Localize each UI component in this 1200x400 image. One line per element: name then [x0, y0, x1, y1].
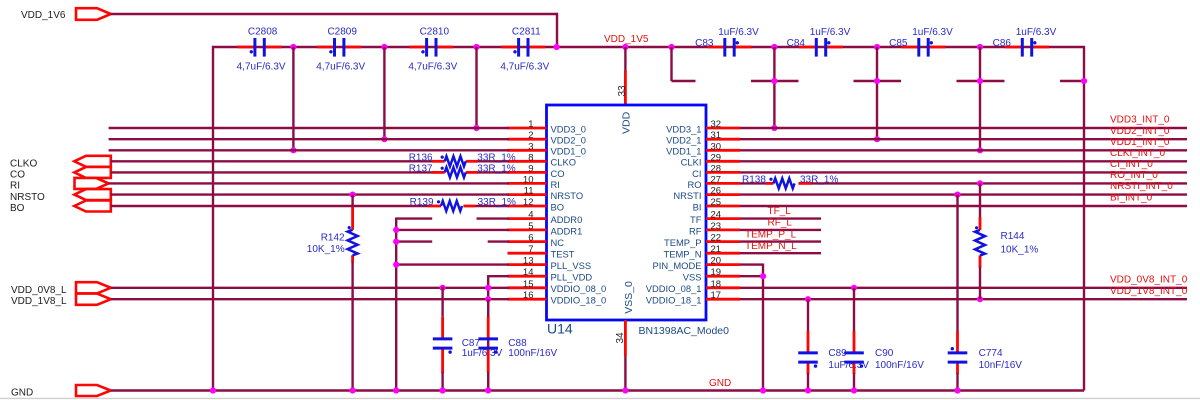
pin 19 VSS: [683, 267, 740, 282]
svg-text:C85: C85: [889, 38, 908, 49]
junction cap row / VDD2_0 leg: [381, 44, 387, 50]
pin 34 stub: [624, 320, 627, 356]
svg-text:PIN_MODE: PIN_MODE: [653, 260, 702, 271]
wire to VDD1_0: [292, 47, 294, 150]
wire VDD2_0 rail: [109, 138, 509, 140]
svg-text:VDDIO_18_1: VDDIO_18_1: [646, 295, 702, 306]
svg-text:CI_INT_0: CI_INT_0: [1110, 159, 1153, 170]
wire RF stub: [740, 229, 821, 231]
svg-text:VDD_0V8_L: VDD_0V8_L: [11, 285, 67, 296]
junction VDD_1V6 entry: [554, 44, 560, 50]
svg-text:VDD_1V5: VDD_1V5: [604, 34, 649, 45]
resistor R144: [975, 226, 985, 255]
wire to VDD3_0: [475, 47, 477, 128]
svg-text:13: 13: [523, 256, 534, 267]
junction T 877: [874, 78, 880, 84]
svg-text:VDD3_0: VDD3_0: [551, 123, 586, 134]
svg-text:31: 31: [711, 130, 722, 141]
pin 18 VDDIO_08_1: [646, 279, 740, 294]
port GND: [76, 385, 111, 396]
pin 27 RO: [687, 174, 740, 189]
wire PIN_MODE to VSS: [740, 263, 763, 265]
junction GND bus: [954, 387, 960, 393]
svg-text:4,7uF/6.3V: 4,7uF/6.3V: [408, 61, 457, 72]
port NRSTO: [74, 189, 111, 200]
pin 30 VDD1_1: [666, 141, 740, 156]
capacitor C90: [853, 288, 855, 333]
svg-text:PLL_VDD: PLL_VDD: [551, 272, 593, 283]
svg-text:R139: R139: [410, 197, 434, 208]
pin 15 VDDIO_08_0: [508, 279, 607, 294]
capacitor C774: [956, 195, 958, 333]
svg-text:21: 21: [711, 244, 722, 255]
port VDD_1V8_L: [76, 294, 111, 305]
pin 7 TEST: [508, 244, 575, 259]
svg-text:26: 26: [711, 186, 722, 197]
junction RO / R144: [977, 180, 983, 186]
wire to VDD2_0: [383, 47, 385, 139]
capacitor C89: [807, 299, 809, 332]
wire RO net: [740, 182, 767, 184]
svg-text:VDDIO_08_0: VDDIO_08_0: [551, 283, 607, 294]
port CLKO: [74, 156, 111, 167]
capacitor C2808: [238, 38, 282, 57]
svg-text:C2808: C2808: [248, 27, 278, 38]
pin 22 TEMP_P: [664, 233, 740, 248]
junction VSS: [760, 273, 766, 279]
svg-text:CLKI_INT_0: CLKI_INT_0: [1110, 148, 1165, 159]
wire R144 riser: [979, 183, 981, 218]
svg-text:33R_1%: 33R_1%: [477, 164, 515, 175]
svg-text:RI: RI: [551, 179, 560, 190]
pin 26 NRSTI: [673, 186, 740, 201]
svg-text:GND: GND: [709, 378, 731, 389]
svg-text:RF_L: RF_L: [768, 218, 793, 229]
pin 1 VDD3_0: [508, 119, 586, 134]
svg-text:3: 3: [528, 141, 533, 152]
pin 6 NC: [508, 233, 565, 248]
op-amp U14 body: [547, 105, 707, 320]
svg-text:100nF/16V: 100nF/16V: [875, 360, 924, 371]
pin 16 VDDIO_18_0: [508, 290, 607, 305]
wire VDD_1V6 top: [111, 13, 558, 15]
svg-text:VDD1_INT_0: VDD1_INT_0: [1110, 137, 1170, 148]
svg-text:100nF/16V: 100nF/16V: [508, 348, 557, 359]
capacitor C2811: [501, 38, 545, 57]
svg-text:25: 25: [711, 197, 722, 208]
svg-text:VDD: VDD: [621, 111, 633, 134]
junction GND bus: [851, 387, 857, 393]
wire VSS net: [740, 275, 763, 277]
capacitor C88: [487, 299, 489, 317]
svg-text:CLKO: CLKO: [551, 157, 577, 168]
junction cap row seg4: [977, 44, 983, 50]
svg-text:VSS: VSS: [683, 272, 702, 283]
port VDD_0V8_L: [76, 282, 111, 293]
junction GND bus: [805, 387, 811, 393]
wire stub L at 671: [670, 47, 672, 81]
wire CI_INT_0 net: [740, 171, 1187, 173]
wire TEMP_P stub: [740, 240, 821, 242]
pin 10 RI: [508, 174, 560, 189]
capacitor C2810: [409, 38, 453, 57]
pin 17 VDDIO_18_1: [646, 290, 740, 305]
junction NC: [393, 239, 399, 245]
svg-text:1uF/6.3V: 1uF/6.3V: [810, 27, 851, 38]
svg-text:TEMP_P_L: TEMP_P_L: [745, 229, 797, 240]
svg-text:10: 10: [523, 174, 534, 185]
junction GND bus: [350, 387, 356, 393]
junction cap row / VDD1_0 leg: [290, 44, 296, 50]
junction C87: [440, 285, 446, 291]
svg-text:C86: C86: [993, 38, 1012, 49]
resistor R136: [441, 156, 466, 167]
svg-text:ADDR1: ADDR1: [551, 225, 583, 236]
wire NRSTI net: [740, 193, 1187, 195]
svg-text:4,7uF/6.3V: 4,7uF/6.3V: [500, 61, 549, 72]
svg-text:R142: R142: [321, 232, 345, 243]
junction cap row / VDD3_0 leg: [473, 44, 479, 50]
junction C88 row15: [485, 285, 491, 291]
svg-text:NRSTI_INT_0: NRSTI_INT_0: [1110, 181, 1173, 192]
svg-text:ADDR0: ADDR0: [551, 214, 583, 225]
pin 3 VDD1_0: [508, 141, 586, 156]
capacitor C83: [708, 38, 752, 57]
svg-text:VSS_0: VSS_0: [623, 281, 635, 314]
svg-text:VDD_1V8_INT_0: VDD_1V8_INT_0: [1110, 286, 1188, 297]
svg-text:VDD2_INT_0: VDD2_INT_0: [1110, 126, 1170, 137]
svg-text:30: 30: [711, 141, 722, 152]
resistor R139: [437, 200, 462, 211]
svg-text:10K_1%: 10K_1%: [307, 244, 345, 255]
svg-text:1uF/6.3V: 1uF/6.3V: [1016, 27, 1057, 38]
pin 12 BO: [508, 197, 565, 212]
pin 29 CLKI: [681, 152, 740, 167]
junction VDD2_1: [874, 136, 880, 142]
svg-text:TF_L: TF_L: [768, 206, 792, 217]
pin 25 BI: [693, 197, 740, 212]
svg-text:BN1398AC_Mode0: BN1398AC_Mode0: [639, 325, 730, 337]
wire ADDR gnd riser: [395, 218, 397, 391]
svg-text:CO: CO: [10, 170, 25, 181]
svg-text:10nF/16V: 10nF/16V: [979, 360, 1023, 371]
svg-text:VDDIO_08_1: VDDIO_08_1: [646, 283, 702, 294]
resistor R138: [769, 178, 794, 189]
junction cap row seg3: [874, 44, 880, 50]
svg-text:4,7uF/6.3V: 4,7uF/6.3V: [237, 61, 286, 72]
wire pin 33 stub: [624, 47, 626, 72]
svg-text:TF: TF: [690, 214, 702, 225]
svg-text:TEST: TEST: [551, 249, 575, 260]
junction VDD3_1: [771, 125, 777, 131]
svg-text:1uF/6.3V: 1uF/6.3V: [718, 27, 759, 38]
port RI: [75, 178, 109, 189]
junction VDD3_0: [473, 125, 479, 131]
wire TF stub: [740, 217, 821, 219]
svg-text:GND: GND: [11, 387, 33, 398]
svg-text:17: 17: [711, 290, 722, 301]
svg-text:29: 29: [711, 152, 722, 163]
junction GND bus: [622, 387, 628, 393]
svg-text:C774: C774: [979, 348, 1003, 359]
svg-text:NC: NC: [551, 237, 565, 248]
wire GND right riser: [1083, 46, 1085, 391]
svg-text:C2810: C2810: [420, 27, 450, 38]
svg-text:VDD1_0: VDD1_0: [551, 146, 586, 157]
junction VDD1_1: [977, 147, 983, 153]
svg-text:U14: U14: [547, 320, 573, 336]
wire VDD2_INT_0 net: [740, 138, 1187, 140]
wire R142 riser: [351, 195, 353, 208]
junction T 980: [977, 78, 983, 84]
port BO: [74, 201, 111, 212]
junction GND bus: [485, 387, 491, 393]
svg-text:5: 5: [528, 221, 533, 232]
junction GND bus: [760, 387, 766, 393]
svg-text:12: 12: [523, 197, 534, 208]
svg-text:14: 14: [523, 267, 534, 278]
svg-text:R137: R137: [409, 164, 433, 175]
svg-text:CI: CI: [692, 168, 701, 179]
svg-text:2: 2: [528, 130, 533, 141]
junction VDD1_0: [290, 147, 296, 153]
pin 2 VDD2_0: [508, 130, 586, 145]
svg-text:R136: R136: [409, 153, 433, 164]
junction T 774: [771, 78, 777, 84]
svg-text:C90: C90: [875, 348, 894, 359]
pin 21 TEMP_N: [663, 244, 740, 259]
svg-text:4,7uF/6.3V: 4,7uF/6.3V: [316, 61, 365, 72]
svg-text:15: 15: [523, 279, 534, 290]
svg-text:32: 32: [711, 119, 722, 130]
svg-text:BI: BI: [693, 201, 702, 212]
pin 4 ADDR0: [508, 210, 583, 225]
wire VDD3_1 drop: [773, 47, 775, 128]
svg-text:NRSTI: NRSTI: [673, 190, 701, 201]
svg-text:R138: R138: [742, 174, 766, 185]
svg-text:10K_1%: 10K_1%: [1001, 244, 1039, 255]
capacitor C86: [1005, 38, 1049, 57]
wire VDD2_1 drop: [876, 47, 878, 139]
junction T 1084: [1081, 78, 1087, 84]
pin 23 RF: [689, 221, 740, 236]
svg-text:BI_INT_0: BI_INT_0: [1110, 193, 1153, 204]
svg-text:BO: BO: [10, 203, 25, 214]
svg-text:NRSTO: NRSTO: [10, 192, 45, 203]
svg-text:RF: RF: [689, 225, 702, 236]
capacitor C85: [902, 38, 946, 57]
svg-text:9: 9: [528, 163, 533, 174]
junction PLL_VSS: [393, 262, 399, 268]
svg-text:7: 7: [528, 244, 533, 255]
svg-text:22: 22: [711, 233, 722, 244]
svg-text:33R_1%: 33R_1%: [478, 197, 516, 208]
wire VDD1_INT_0 net: [740, 149, 1187, 151]
svg-text:RO: RO: [687, 179, 701, 190]
junction cap row seg1: [668, 44, 674, 50]
svg-text:19: 19: [711, 267, 722, 278]
svg-text:VDDIO_18_0: VDDIO_18_0: [551, 295, 607, 306]
junction GND bus: [440, 387, 446, 393]
svg-text:VDD2_1: VDD2_1: [666, 135, 701, 146]
wire ADDR1 net: [396, 229, 509, 231]
wire VDDIO_18_1 net: [740, 298, 1187, 300]
pin 11 NRSTO: [508, 186, 584, 201]
wire CLKI_INT_0 net: [740, 160, 1187, 162]
svg-text:C83: C83: [695, 38, 714, 49]
svg-text:1uF/6.3V: 1uF/6.3V: [912, 27, 953, 38]
svg-text:8: 8: [528, 152, 533, 163]
svg-text:RO_INT_0: RO_INT_0: [1110, 170, 1158, 181]
svg-text:NRSTO: NRSTO: [551, 190, 584, 201]
junction VDD2_0: [381, 136, 387, 142]
svg-text:11: 11: [524, 186, 534, 197]
wire CLKO net: [111, 160, 433, 162]
pin 24 TF: [690, 210, 740, 225]
svg-text:33: 33: [617, 85, 628, 97]
svg-text:23: 23: [711, 221, 722, 232]
pin 14 PLL_VDD: [508, 267, 593, 282]
pin 28 CI: [692, 163, 740, 178]
wire PLL_VDD drop: [487, 275, 489, 390]
svg-text:CLKI: CLKI: [681, 157, 702, 168]
svg-text:CO: CO: [551, 168, 565, 179]
svg-text:VDD_0V8_INT_0: VDD_0V8_INT_0: [1110, 274, 1188, 285]
svg-text:VDD2_0: VDD2_0: [551, 135, 586, 146]
resistor R137: [441, 167, 466, 178]
svg-text:C2809: C2809: [327, 27, 357, 38]
svg-text:TEMP_P: TEMP_P: [664, 237, 702, 248]
svg-text:28: 28: [711, 163, 722, 174]
svg-text:33R_1%: 33R_1%: [477, 153, 515, 164]
svg-text:VDD_1V8_L: VDD_1V8_L: [11, 296, 67, 307]
junction VDD_1V5 / pin33: [622, 44, 628, 50]
svg-text:20: 20: [711, 256, 722, 267]
junction GND bus: [393, 387, 399, 393]
junction NRSTO / R142: [350, 192, 356, 198]
svg-text:TEMP_N_L: TEMP_N_L: [745, 241, 797, 252]
junction GND bus: [210, 387, 216, 393]
pin 8 CLKO: [508, 152, 577, 167]
pin 32 VDD3_1: [666, 119, 740, 134]
wire BO net: [111, 205, 429, 207]
pin 31 VDD2_1: [666, 130, 740, 145]
wire 4.7uF cap row: [212, 46, 1084, 48]
wire VDD_1V8_L net: [111, 298, 509, 300]
wire PLL_VDD net: [488, 275, 509, 277]
svg-text:1: 1: [528, 119, 533, 130]
wire NRSTO net: [111, 193, 509, 195]
wire TEMP_N stub: [740, 252, 821, 254]
wire C2808 left leg to GND: [212, 46, 214, 391]
pin 5 ADDR1: [508, 221, 583, 236]
svg-text:6: 6: [528, 233, 533, 244]
svg-text:34: 34: [615, 332, 626, 344]
wire VDD_0V8_L net: [111, 287, 509, 289]
svg-text:VDD3_INT_0: VDD3_INT_0: [1110, 115, 1170, 126]
wire GND bus: [111, 389, 1084, 391]
junction C90: [851, 285, 857, 291]
svg-text:24: 24: [711, 210, 722, 221]
port CO: [74, 167, 111, 178]
svg-text:R144: R144: [1001, 231, 1025, 242]
svg-text:VDD1_1: VDD1_1: [666, 146, 701, 157]
junction cap row seg2: [771, 44, 777, 50]
pin 13 PLL_VSS: [508, 256, 592, 271]
wire BI net: [740, 205, 1187, 207]
capacitor C84: [799, 38, 843, 57]
svg-text:33R_1%: 33R_1%: [800, 174, 838, 185]
svg-text:4: 4: [528, 210, 533, 221]
svg-text:PLL_VSS: PLL_VSS: [551, 260, 592, 271]
svg-text:C2811: C2811: [512, 27, 541, 38]
svg-text:VDD_1V6: VDD_1V6: [21, 10, 66, 21]
svg-text:C84: C84: [787, 38, 806, 49]
svg-text:BO: BO: [551, 201, 565, 212]
junction R144 bottom: [977, 296, 983, 302]
resistor R142: [348, 226, 358, 255]
capacitor C2809: [317, 38, 361, 57]
svg-text:16: 16: [523, 290, 534, 301]
wire VDDIO_08_1 net: [740, 287, 1187, 289]
svg-text:18: 18: [711, 279, 722, 290]
wire ADDR0 net: [396, 217, 432, 219]
wire VDD1_0 rail: [109, 149, 509, 151]
svg-text:CLKO: CLKO: [10, 159, 37, 170]
pin 9 CO: [508, 163, 565, 178]
svg-text:27: 27: [711, 174, 722, 185]
svg-text:VDD3_1: VDD3_1: [666, 123, 701, 134]
wire VDD3_0 rail: [109, 127, 509, 129]
wire VDD1_1 drop: [979, 47, 981, 150]
junction C89: [805, 296, 811, 302]
junction NRSTI / C774: [954, 192, 960, 198]
pin 20 PIN_MODE: [653, 256, 740, 271]
wire RI net: [109, 182, 509, 184]
wire VDD3_INT_0 net: [740, 127, 1187, 129]
window edge: [0, 397, 1200, 399]
wire CO net: [111, 171, 433, 173]
junction ADDR1: [393, 227, 399, 233]
svg-text:TEMP_N: TEMP_N: [663, 249, 701, 260]
capacitor C87: [441, 287, 443, 317]
junction C88 row16: [485, 296, 491, 302]
port VDD_1V6: [76, 8, 111, 20]
wire NC net: [396, 240, 432, 242]
svg-text:RI: RI: [10, 181, 20, 192]
wire PLL_VSS net: [396, 263, 509, 265]
